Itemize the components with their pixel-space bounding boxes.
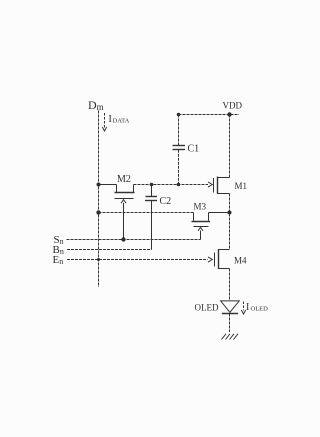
svg-text:C1: C1: [188, 144, 200, 155]
svg-text:M2: M2: [117, 174, 131, 185]
svg-text:M1: M1: [235, 181, 248, 191]
svg-text:C2: C2: [160, 196, 172, 207]
svg-text:I: I: [246, 302, 249, 313]
svg-text:M3: M3: [194, 202, 207, 212]
svg-text:VDD: VDD: [223, 101, 243, 111]
svg-text:M4: M4: [234, 256, 247, 266]
svg-text:I: I: [109, 114, 112, 125]
svg-text:OLED: OLED: [195, 303, 219, 313]
svg-text:DATA: DATA: [113, 118, 130, 125]
svg-text:OLED: OLED: [251, 306, 269, 313]
